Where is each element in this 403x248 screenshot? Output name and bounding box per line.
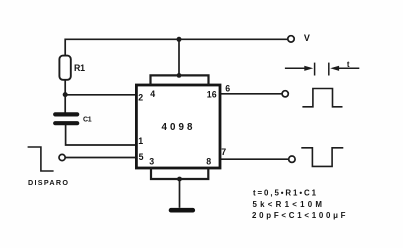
wire IC to pin6 terminal [221, 93, 282, 95]
svg-text:8: 8 [206, 156, 211, 166]
IC U1 4098 body [136, 85, 220, 168]
output Q-bar terminal (pin 7) [289, 156, 295, 162]
junction on top rail [177, 37, 182, 42]
svg-text:4: 4 [150, 89, 155, 99]
svg-text:5: 5 [139, 152, 144, 162]
wire IC to pin7 terminal [221, 158, 289, 160]
trigger waveform [28, 147, 54, 171]
wire node to C1 [64, 95, 66, 113]
resistor R1 [59, 56, 70, 80]
svg-text:C1: C1 [83, 117, 92, 124]
wire trigger to pin 5 [65, 157, 135, 159]
svg-text:2: 2 [138, 93, 143, 103]
negative pulse waveform [301, 148, 343, 167]
output Q terminal (pin 6) [282, 91, 288, 97]
wire bottom bracket pins 3-8 [151, 168, 208, 180]
svg-text:7: 7 [221, 147, 226, 157]
junction node below R1 [63, 92, 68, 97]
junction on bottom bracket [177, 177, 182, 182]
svg-text:R1: R1 [74, 63, 85, 73]
wire bracket to rail [178, 39, 180, 75]
svg-text:3: 3 [149, 157, 154, 167]
wire to ground [179, 179, 181, 208]
svg-text:t: t [347, 60, 350, 69]
ground [171, 208, 193, 213]
wire top bracket pins 4-16 [151, 75, 209, 85]
svg-text:DISPARO: DISPARO [28, 178, 68, 187]
wire top rail V [65, 39, 288, 56]
svg-text:t=0,5•R1•C1: t=0,5•R1•C1 [253, 188, 317, 197]
junction on top bracket [177, 73, 182, 78]
positive pulse waveform [302, 89, 342, 107]
wire node to pin 2 [65, 94, 135, 96]
V supply terminal [288, 36, 294, 42]
capacitor C1 [55, 114, 77, 123]
svg-text:1: 1 [138, 136, 143, 146]
wire R1 bottom to node [64, 80, 66, 95]
pulse width t symbol [285, 63, 359, 76]
wire C1 to pin 1 [66, 125, 136, 145]
svg-text:5k<R1<10M: 5k<R1<10M [253, 200, 323, 209]
svg-text:V: V [304, 33, 310, 43]
svg-text:16: 16 [207, 89, 217, 99]
svg-text:6: 6 [225, 83, 230, 93]
svg-text:20pF<C1<100μF: 20pF<C1<100μF [252, 211, 346, 220]
trigger input terminal [59, 154, 65, 160]
